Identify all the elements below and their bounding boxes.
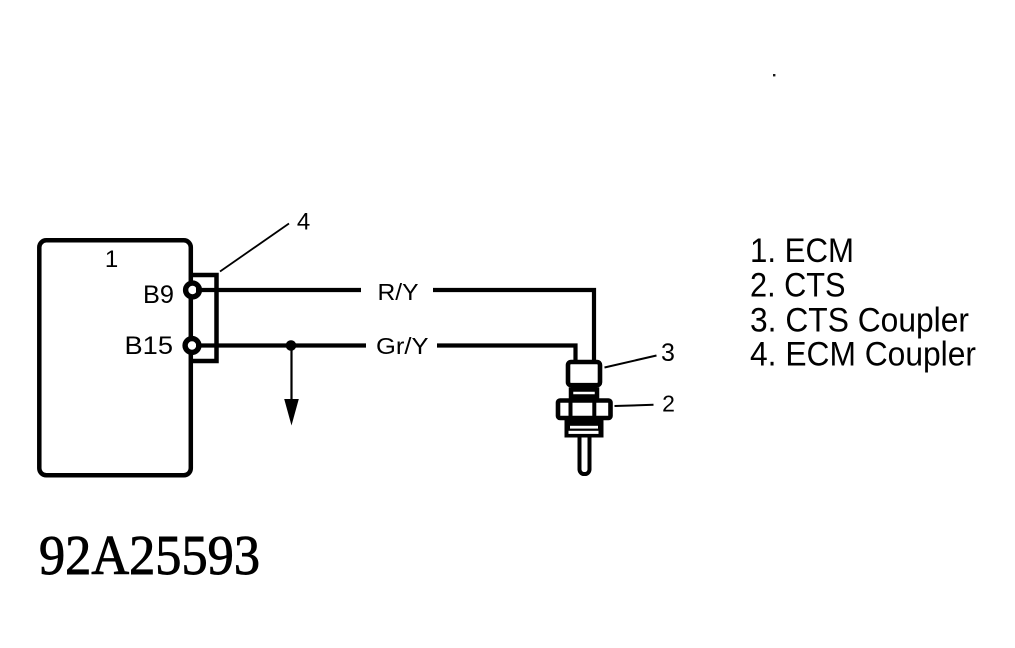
svg-text:4: 4	[297, 209, 310, 236]
CTS probe tip	[580, 430, 590, 474]
CTS coupler neck	[571, 390, 597, 397]
svg-text:2. CTS: 2. CTS	[750, 267, 846, 305]
svg-text:1. ECM: 1. ECM	[750, 232, 854, 270]
CTS threaded collar	[565, 419, 604, 438]
wire Gr/Y left segment from pin B15	[196, 343, 366, 347]
leader line to label 3	[605, 356, 657, 368]
svg-text:92A25593: 92A25593	[39, 525, 260, 587]
leader line to label 4	[220, 224, 289, 272]
svg-text:R/Y: R/Y	[378, 279, 419, 305]
leader line to label 2	[615, 405, 654, 406]
svg-text:1: 1	[105, 246, 118, 273]
svg-text:B15: B15	[125, 332, 174, 360]
junction on Gr/Y wire	[286, 340, 297, 351]
svg-text:Gr/Y: Gr/Y	[376, 333, 429, 359]
wire Gr/Y right segment with corner down to CTS coupler	[437, 346, 576, 361]
ground arrow head	[284, 399, 299, 426]
svg-text:3: 3	[661, 339, 675, 367]
svg-text:2: 2	[662, 391, 675, 417]
svg-text:4. ECM Coupler: 4. ECM Coupler	[750, 335, 976, 373]
CTS coupler (3) body	[568, 362, 600, 385]
hex nut facet lines	[569, 400, 573, 419]
ECM box U1	[39, 240, 191, 475]
CTS (2) hex nut	[558, 401, 611, 419]
wire R/Y right segment with corner down to CTS coupler	[433, 290, 594, 360]
pin B15 terminal	[185, 339, 199, 353]
svg-text:B9: B9	[143, 281, 174, 309]
wire R/Y left segment from pin B9	[196, 288, 361, 292]
ground arrow stem	[290, 348, 292, 401]
pin B9 terminal	[186, 283, 200, 297]
svg-text:3. CTS Coupler: 3. CTS Coupler	[750, 301, 969, 339]
ECM coupler (4) bracket	[191, 275, 217, 361]
